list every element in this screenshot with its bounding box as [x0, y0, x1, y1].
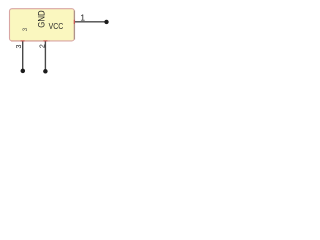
right border accent	[73, 11, 75, 40]
pin 2 wire	[44, 41, 46, 69]
pin 2 terminal dot	[43, 69, 48, 74]
svg-text:GND: GND	[37, 10, 47, 27]
svg-text:2: 2	[38, 44, 47, 48]
svg-text:3: 3	[22, 27, 29, 31]
pin 2 base tick (red)	[43, 40, 47, 42]
pin 1 wire	[75, 21, 105, 23]
pin 1 base tick (red)	[73, 20, 75, 24]
component body (yellow box)	[10, 9, 75, 41]
pin 3 base tick (red)	[21, 40, 25, 42]
pin 3 wire	[22, 41, 24, 69]
svg-text:VCC: VCC	[49, 21, 64, 31]
bottom border accent	[11, 40, 50, 42]
svg-text:1: 1	[80, 13, 85, 23]
svg-text:3: 3	[14, 45, 23, 49]
pin 3 terminal dot	[21, 69, 26, 74]
pin 1 terminal dot	[104, 20, 108, 24]
